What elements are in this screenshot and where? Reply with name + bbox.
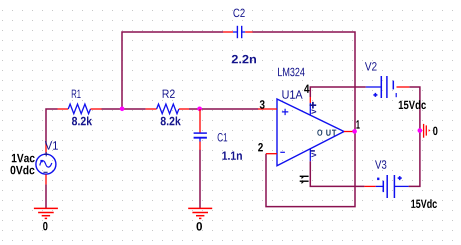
pin 1 — [356, 120, 359, 128]
value 8.2k (R1) — [72, 117, 92, 126]
ground G1 — [34, 208, 58, 218]
op-amp U1 — [258, 97, 355, 172]
resistor R1 — [58, 104, 102, 114]
label 0 (right rail) — [433, 127, 437, 136]
label OUT O — [317, 130, 322, 136]
wire feedback up from junction A — [122, 32, 223, 109]
wire junction B to pin3 — [200, 108, 259, 110]
junction A dot — [120, 107, 125, 112]
pin 4 — [304, 85, 309, 93]
value 8.2k (R2) — [161, 117, 181, 126]
capacitor C1 — [194, 109, 207, 150]
label C1 — [218, 133, 228, 142]
value 1.1n — [222, 152, 242, 160]
label R1 — [72, 90, 81, 98]
label OUT T — [332, 130, 336, 136]
wire C2 right to corner and down to OUT node and feedback bottom — [252, 32, 355, 207]
pin 3 — [260, 100, 265, 109]
glyph V- (rotated V) — [311, 153, 316, 158]
pin 2 — [258, 143, 263, 151]
source V1 — [36, 145, 56, 185]
wire V2 right to right rail down to V3 right — [409, 87, 420, 186]
label V1 — [45, 141, 58, 149]
junction B dot — [197, 107, 202, 112]
node 0 marker on right rail — [418, 124, 431, 138]
label C2 — [233, 9, 244, 18]
value 2.2n — [232, 55, 256, 63]
OUT node dot — [352, 129, 357, 134]
value 15Vdc (V2) — [399, 100, 426, 109]
label V2 — [365, 62, 377, 70]
wire junction A to R2 — [122, 108, 146, 110]
label LM324 — [278, 68, 305, 77]
battery V3 — [364, 175, 408, 198]
label R2 — [163, 90, 175, 98]
label OUT U — [326, 130, 330, 136]
ground G2 — [188, 208, 212, 218]
wire V1 bottom to ground — [45, 184, 47, 208]
label 0 (G2) — [197, 222, 203, 231]
capacitor C2 — [223, 26, 252, 38]
label 0 (G1) — [43, 222, 47, 231]
value 15Vdc (V3) — [411, 199, 437, 208]
label V3 — [375, 160, 386, 169]
wire pin11 to V3 — [310, 172, 364, 186]
wire R1 right to junction A — [102, 108, 123, 110]
label U1A — [282, 90, 302, 98]
wire R2 right to junction B — [189, 108, 201, 110]
wire C1 bottom to ground — [199, 150, 201, 209]
glyph V+ (rotated V) — [311, 109, 316, 114]
label 0Vdc — [11, 166, 35, 175]
resistor R2 — [146, 104, 189, 114]
label 1Vac — [12, 154, 35, 162]
battery V2 — [366, 76, 410, 98]
wire V1 top to rail — [46, 109, 58, 145]
wire pin4 to V2 — [310, 87, 366, 97]
pin 11 (rotated) — [300, 176, 309, 184]
